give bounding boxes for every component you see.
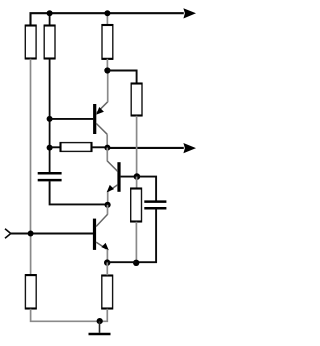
junction dot Q1 base node [47,116,53,122]
wire output row [107,147,183,149]
resistor R1 [25,25,36,59]
junction dot Q2 base node [134,173,141,180]
junction dot node B [105,202,111,208]
resistor R8 [102,275,113,309]
transistor Q1 (PNP) [93,102,108,135]
wire R8 top stub [106,262,108,275]
wire top supply rail [31,13,184,25]
wire Q2 base [121,176,137,178]
wire bottom link row [107,261,136,263]
wire R2 column down to C1 [49,59,51,172]
wire input to Q3 base [31,233,93,235]
wire Q1 base [50,118,94,120]
junction dot top rail / R3 [104,10,110,16]
wire R7 bottom to bottom link row [135,222,137,262]
transistor Q3 (NPN) [93,214,109,250]
capacitor C1 [38,173,62,180]
junction dot input node [28,231,34,237]
resistor R6 [25,275,36,309]
wire Q2 emitter down to node B [107,192,109,205]
wire Q3 collector up to node B [107,205,109,215]
junction dot R5 left node [47,145,53,151]
wire left column input node to R6 [30,234,32,275]
wire left column R1 to input node [30,59,32,234]
wire bottom rail [31,309,108,322]
junction dot top rail / R2 [47,10,53,16]
junction dot R7 / C2 node [133,260,139,266]
wire Q2 collector up to output node [106,148,108,162]
junction dot node C [104,259,110,265]
resistor R4 [131,83,142,116]
resistor R2 [44,25,55,59]
wire R2 top stub [49,13,51,25]
wire Q1 emitter up to node A [107,71,109,103]
output arrow [183,143,196,153]
ground [89,321,111,334]
wire R4 bottom to base node [136,116,138,177]
wire R3 top stub [106,13,108,24]
wire node A to R4 top [107,71,136,84]
transistor Q2 (NPN, mirrored) [107,161,121,192]
junction dot ground node [97,318,103,324]
resistor R7 [130,188,141,222]
input terminal [5,229,31,239]
wire base node to C2 top [137,177,156,201]
output arrow top rail [183,8,196,18]
wire C1 bottom to node B [50,181,108,204]
capacitor C2 [144,202,166,209]
wire Q3 emitter down to node C [106,250,108,262]
junction dot output node [104,145,110,151]
wire C2 bottom to bottom link row [136,209,156,262]
wire Q1 collector down to output node [106,134,108,147]
resistor R5 (horizontal) [50,142,108,151]
resistor R3 [102,25,113,59]
junction dot node A [104,67,110,73]
wire base node down to R7 [136,177,138,188]
wire R3 bottom to node A [106,59,108,71]
